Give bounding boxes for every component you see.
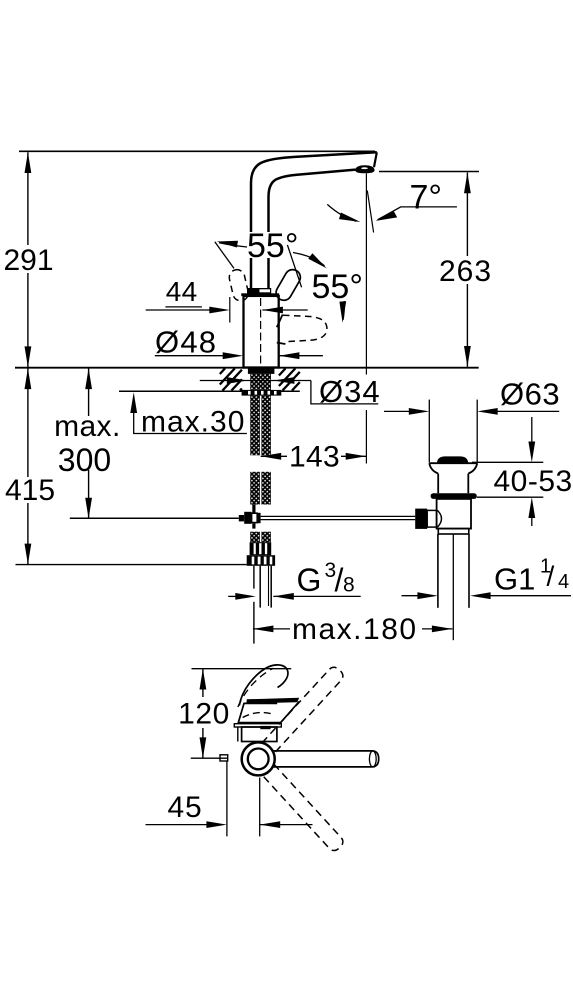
- dimension 120: [178, 669, 230, 759]
- svg-text:300: 300: [58, 442, 111, 478]
- mounting nut: [242, 390, 282, 396]
- rod connector cross: [239, 515, 244, 521]
- dashed spout position down: [262, 764, 345, 853]
- spout pipe inner edge: [269, 170, 356, 290]
- svg-text:55°: 55°: [247, 227, 298, 265]
- 40-53 upper arrow: [531, 417, 533, 443]
- threaded shank through hole: [250, 374, 271, 390]
- dashed lever position c: [283, 315, 327, 342]
- right top reference line at aerator level: [379, 171, 479, 173]
- left step line: [237, 727, 239, 742]
- lever dome top view: [238, 702, 299, 723]
- drain flange extension lines: [428, 400, 430, 463]
- pop-up rod left section: [70, 517, 239, 519]
- dashed lever position a: [228, 268, 250, 302]
- svg-text:max.180: max.180: [292, 613, 418, 646]
- drain rod knob: [415, 509, 427, 529]
- supply pipe below nuts: [259, 566, 261, 608]
- max.30 label with arrow: [130, 392, 247, 438]
- svg-text:max.: max.: [54, 410, 121, 443]
- lever angle arc 2 lower piece: [343, 301, 344, 320]
- connection nuts: [247, 555, 275, 566]
- lever angle leg a: [215, 242, 234, 269]
- drain tailpipe: [437, 534, 439, 608]
- dashed spout position up: [262, 665, 345, 754]
- svg-text:G: G: [297, 562, 322, 598]
- dimension diameter 63: [384, 377, 560, 415]
- solid spout bar top view: [272, 751, 379, 767]
- spout bar end cap ellipse: [369, 751, 376, 767]
- aerator: [355, 165, 374, 173]
- 40-53 lower arrow: [531, 516, 533, 526]
- 7 degree arc with arrow: [327, 204, 356, 221]
- drain neck: [437, 474, 439, 494]
- swivel inner circle: [248, 749, 269, 770]
- dimension max.180: [253, 613, 453, 646]
- 7 degree tilted line: [367, 191, 373, 233]
- svg-text:291: 291: [3, 244, 53, 277]
- pop-up rod to drain double line: [261, 515, 416, 517]
- body cap ring: [247, 288, 271, 294]
- dimension diameter 48: [155, 325, 323, 360]
- drain centerline: [452, 534, 454, 640]
- lever angle leg b: [287, 245, 301, 287]
- svg-text:/: /: [547, 561, 555, 592]
- cartridge flange top view: [234, 724, 281, 727]
- dimension 415: [5, 368, 55, 564]
- spout tip cut: [374, 152, 377, 167]
- svg-text:120: 120: [178, 698, 230, 731]
- 40-53 top reference line: [472, 461, 543, 463]
- top reference line: [19, 150, 375, 152]
- flexible hoses upper section: [250, 396, 260, 456]
- dimension diameter 34 arrows: [200, 374, 381, 409]
- svg-text:4: 4: [558, 571, 569, 593]
- 40-53 bottom reference line: [477, 496, 544, 498]
- dimension 143: [261, 441, 367, 474]
- dimension max 300: [52, 368, 124, 518]
- drain plug cap: [437, 456, 468, 463]
- faucet body cylinder: [244, 296, 279, 368]
- escutcheon seal plate: [248, 368, 275, 374]
- side tab: [220, 755, 228, 761]
- body top edge band: [241, 293, 279, 296]
- spout axis reference line: [191, 757, 228, 759]
- hose hatch small section: [250, 532, 260, 543]
- svg-text:44: 44: [166, 276, 198, 307]
- lever angle arc 2 upper piece: [293, 253, 325, 267]
- lever blade top view: [246, 698, 299, 704]
- drain body: [437, 499, 471, 529]
- svg-text:415: 415: [5, 474, 55, 507]
- swivel outer circle: [242, 742, 275, 775]
- lever c root solid edges: [277, 315, 283, 328]
- dimension G1 1/4: [402, 556, 572, 600]
- 55 degree label lower: [311, 273, 361, 299]
- svg-text:G1: G1: [494, 562, 535, 597]
- dimension 44: [146, 276, 308, 323]
- flexible hoses lower section: [250, 472, 260, 505]
- dimension 45: [146, 762, 313, 837]
- svg-text:7°: 7°: [410, 179, 443, 217]
- svg-text:8: 8: [343, 574, 355, 597]
- dome hidden edge dashed: [243, 713, 274, 718]
- drain body bottom ring: [438, 529, 469, 534]
- dimension G 3/8: [228, 559, 361, 600]
- counter hatch right block: [279, 368, 300, 390]
- svg-text:Ø63: Ø63: [500, 377, 560, 412]
- counter hatch left block: [220, 368, 242, 390]
- counter underside line: [119, 390, 300, 392]
- svg-text:143: 143: [289, 441, 340, 474]
- pop-up rod lower vertical: [253, 566, 255, 589]
- 55 degree label upper: [247, 232, 295, 258]
- svg-text:263: 263: [439, 255, 492, 288]
- dimension 263 line: [439, 173, 494, 367]
- 7 degree leader line with arrow: [378, 207, 457, 220]
- drain gasket: [431, 493, 477, 499]
- body centerline: [260, 298, 262, 366]
- lever raised curved shape: [239, 665, 288, 706]
- spout pipe outer edge: [251, 152, 377, 290]
- svg-text:40-53: 40-53: [494, 465, 573, 498]
- solid lever position b: [273, 267, 303, 303]
- drain flange: [429, 463, 477, 473]
- svg-text:55°: 55°: [312, 268, 363, 306]
- 7 degree vertical extension line: [365, 174, 367, 375]
- body slot: [260, 726, 270, 729]
- lever tip reference line: [192, 668, 292, 670]
- 415 bottom reference line: [16, 564, 247, 566]
- svg-text:Ø34: Ø34: [319, 374, 381, 409]
- rod vertical stems: [252, 505, 255, 514]
- body top view: [242, 727, 277, 742]
- hose collars: [250, 542, 272, 555]
- dimension 291 line: [3, 152, 54, 367]
- svg-text:45: 45: [168, 791, 203, 824]
- lever angle arc 1: [219, 243, 286, 248]
- lever raised hidden edge dashed: [238, 668, 274, 707]
- drain rod collar: [427, 510, 436, 527]
- svg-text:Ø48: Ø48: [155, 325, 217, 360]
- counter top line: [15, 367, 479, 369]
